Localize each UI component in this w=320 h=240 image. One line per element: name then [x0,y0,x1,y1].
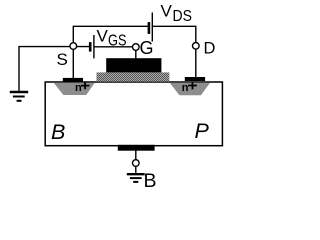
ground (source side) [10,91,28,93]
svg-text:V: V [97,27,109,46]
svg-text:B: B [51,120,65,144]
svg-text:P: P [195,119,210,143]
wire: node S to VGS battery [73,46,90,48]
svg-text:V: V [161,2,173,21]
node G [133,44,140,51]
svg-text:D: D [204,40,216,58]
ground (body side) [127,173,145,175]
wire: left ground up and right to node S [19,47,73,92]
svg-text:n: n [182,82,189,94]
wire: body contact down to ground [135,148,137,174]
n+ drain region [170,83,210,96]
gate electrode [106,58,161,72]
wire: node S up, top rail to VDS battery [73,26,149,78]
svg-text:G: G [140,38,154,58]
node D [193,43,200,50]
node S [70,43,77,50]
svg-text:n: n [75,82,82,94]
svg-text:B: B [144,170,157,192]
wire: node G down to gate [135,47,137,59]
body contact [118,145,155,151]
substrate body rectangle (P) [45,82,222,146]
svg-text:S: S [57,50,68,69]
n+ source region [54,83,95,95]
gate oxide layer [97,72,170,81]
wire: VGS battery to node G [94,46,136,48]
node B [133,160,140,167]
source contact [63,78,83,82]
svg-text:DS: DS [173,8,193,25]
drain contact [185,77,205,81]
wire: VDS battery to node D and down to drain contact [152,26,196,77]
battery VDS [148,22,151,34]
battery VGS [89,42,92,52]
